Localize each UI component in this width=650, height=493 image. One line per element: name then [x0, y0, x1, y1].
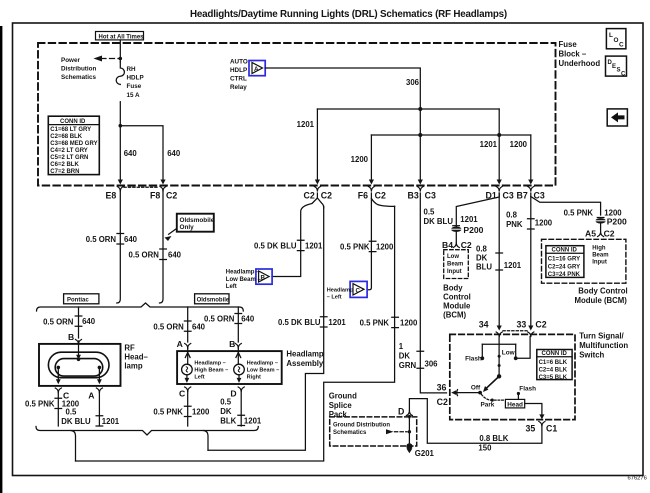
svg-text:C2=68 BLK: C2=68 BLK	[50, 134, 83, 140]
wire down to B7 exit	[530, 135, 532, 181]
svg-text:lamp: lamp	[124, 362, 142, 371]
svg-text:Fuse: Fuse	[559, 40, 578, 49]
svg-text:Assembly: Assembly	[286, 359, 324, 368]
svg-text:B3: B3	[408, 191, 419, 201]
svg-text:1: 1	[399, 342, 404, 351]
svg-text:Head–: Head–	[124, 353, 148, 362]
svg-text:1200: 1200	[535, 219, 553, 228]
svg-text:Fuse: Fuse	[127, 83, 142, 90]
Pontiac tag	[64, 294, 99, 304]
svg-text:1201: 1201	[297, 120, 315, 129]
svg-text:A: A	[88, 391, 94, 401]
switch wiper arm	[497, 374, 501, 378]
svg-text:Headlamp: Headlamp	[327, 288, 354, 294]
svg-text:Low: Low	[447, 254, 459, 260]
svg-text:C2=24 GRY: C2=24 GRY	[548, 264, 580, 270]
svg-text:640: 640	[241, 315, 255, 324]
D1/C3 split: branch to B4/C2 BCM low beam input	[456, 193, 499, 243]
svg-text:C2: C2	[535, 320, 546, 330]
svg-text:C: C	[621, 71, 626, 77]
svg-text:C2: C2	[321, 191, 332, 201]
brace exit hook left	[71, 431, 76, 462]
relay U1: AUTO HDLP CTRL Relay pointer icon A	[249, 61, 265, 76]
svg-text:Left: Left	[194, 375, 204, 381]
svg-text:C3=24 PNK: C3=24 PNK	[548, 272, 581, 278]
C2/C2 wire split below connector	[272, 193, 317, 277]
svg-text:Module (BCM): Module (BCM)	[575, 296, 628, 305]
svg-text:Headlamp –: Headlamp –	[226, 270, 260, 276]
svg-text:C: C	[356, 287, 361, 294]
svg-text:BLK: BLK	[220, 417, 236, 426]
svg-text:0.5 ORN: 0.5 ORN	[129, 251, 160, 260]
B7/C3 split: branch to A5/C2 BCM high beam input	[531, 193, 601, 215]
svg-text:C2: C2	[375, 191, 386, 201]
svg-text:A: A	[177, 339, 183, 349]
wire down to F6 exit	[370, 135, 372, 181]
svg-text:0.5 DK BLU: 0.5 DK BLU	[254, 242, 297, 251]
wire down to assembly A	[187, 307, 189, 342]
svg-text:Headlights/Daytime Running Lig: Headlights/Daytime Running Lights (DRL) …	[190, 9, 507, 20]
wire branch to F8	[120, 126, 163, 181]
svg-text:0.8: 0.8	[506, 211, 518, 220]
svg-text:1201: 1201	[504, 261, 522, 270]
svg-text:0.5 ORN: 0.5 ORN	[153, 323, 184, 332]
wire down to C2 exit	[316, 109, 318, 181]
svg-text:Beam: Beam	[447, 261, 463, 267]
svg-text:Input: Input	[592, 260, 607, 266]
svg-text:1201: 1201	[480, 140, 498, 149]
svg-text:35: 35	[526, 424, 536, 434]
svg-text:0.5 ORN: 0.5 ORN	[43, 318, 74, 327]
svg-text:B: B	[261, 274, 266, 281]
CONN ID table (switch)	[537, 350, 572, 381]
pointer icon B: Headlamp Low Beam - Left	[256, 269, 272, 284]
svg-text:640: 640	[192, 323, 206, 332]
B7 main wire down to switch 33 (0.8 PNK 1200)	[530, 197, 532, 328]
svg-text:B: B	[68, 332, 74, 342]
svg-text:Block –: Block –	[559, 50, 587, 59]
svg-text:640: 640	[168, 251, 182, 260]
svg-text:Park: Park	[481, 402, 495, 409]
svg-text:33: 33	[517, 320, 527, 330]
Low Beam Input dashed box	[444, 250, 469, 279]
park contact + dotted detent path	[491, 399, 494, 402]
wire down to assembly B	[237, 307, 239, 342]
svg-text:Body: Body	[443, 284, 463, 293]
head contact box	[505, 399, 524, 408]
svg-text:306: 306	[406, 78, 420, 87]
distribution bracket (orange feed)	[37, 303, 244, 311]
wire down to D1 exit	[498, 109, 500, 181]
high beam left bulb	[182, 352, 229, 383]
svg-text:34: 34	[479, 320, 489, 330]
svg-text:Splice: Splice	[329, 401, 353, 410]
fuse RH HDLP 15A	[116, 62, 124, 84]
svg-text:RF: RF	[124, 344, 135, 353]
wire down to RF headlamp B	[78, 307, 80, 338]
svg-text:DK BLU: DK BLU	[61, 417, 91, 426]
F6/C2 wire split below connector	[367, 193, 371, 290]
svg-text:1201: 1201	[460, 215, 478, 224]
svg-text:Headlamp –: Headlamp –	[247, 361, 278, 367]
P200 pass-through (right)	[595, 218, 605, 223]
svg-text:D: D	[398, 407, 404, 417]
svg-text:C3=5 BLK: C3=5 BLK	[539, 375, 568, 381]
svg-text:HDLP: HDLP	[127, 75, 144, 82]
svg-text:0.5 PNK: 0.5 PNK	[340, 243, 370, 252]
svg-text:0.5 PNK: 0.5 PNK	[564, 209, 594, 218]
svg-text:15 A: 15 A	[127, 92, 141, 99]
PNK return path: F6 branch to left brace	[76, 206, 395, 461]
svg-text:B7: B7	[517, 191, 528, 201]
connector fork on B wire	[76, 340, 82, 345]
svg-text:– Left: – Left	[327, 294, 342, 300]
svg-text:1200: 1200	[400, 319, 418, 328]
low contact centre	[498, 344, 500, 376]
svg-text:0.5: 0.5	[424, 208, 436, 217]
svg-text:640: 640	[167, 149, 181, 158]
svg-text:0.5 DK BLU: 0.5 DK BLU	[278, 318, 321, 327]
svg-text:C1: C1	[546, 424, 557, 434]
svg-text:O: O	[614, 37, 619, 44]
svg-text:Oldsmobile: Oldsmobile	[180, 217, 215, 224]
svg-text:High: High	[592, 246, 606, 252]
svg-text:1201: 1201	[328, 318, 346, 327]
wire E8 down to pontiac/olds bracket	[117, 191, 121, 303]
svg-text:640: 640	[124, 149, 138, 158]
DK BLU return path: C2 branch to right brace	[208, 206, 324, 450]
svg-text:A5: A5	[585, 229, 596, 239]
connector forks below fuse block	[117, 187, 123, 192]
svg-text:1201: 1201	[102, 417, 120, 426]
CONN ID table (BCM right)	[546, 246, 584, 278]
svg-text:Flash: Flash	[519, 386, 536, 393]
svg-text:Schematics: Schematics	[333, 430, 367, 436]
svg-text:C2=4 BLK: C2=4 BLK	[539, 367, 568, 373]
svg-text:Body Control: Body Control	[578, 287, 627, 296]
wire from off contact to 36/C2 exit	[457, 392, 481, 394]
svg-text:C2: C2	[604, 229, 615, 239]
switch: 34 pole down to crossbar	[498, 337, 500, 345]
svg-text:DK: DK	[399, 352, 411, 361]
svg-text:1200: 1200	[351, 155, 369, 164]
svg-text:Multifunction: Multifunction	[579, 341, 628, 350]
svg-text:Module: Module	[443, 302, 471, 311]
svg-text:CTRL: CTRL	[230, 76, 247, 83]
svg-text:0.5: 0.5	[220, 398, 232, 407]
arrows into E8 / F8	[118, 180, 123, 185]
off contact	[478, 391, 482, 395]
pointer icon C: Headlamp - Left	[350, 281, 367, 297]
distribution bus 2 (y=135): F6 to B7	[371, 134, 530, 136]
svg-text:Ground Distribution: Ground Distribution	[333, 422, 390, 428]
svg-text:CONN ID: CONN ID	[542, 351, 568, 357]
G201 ground	[406, 443, 412, 449]
svg-text:676276: 676276	[628, 476, 647, 482]
P200 pass-through (left)	[451, 227, 461, 232]
svg-text:Low Beam –: Low Beam –	[247, 368, 280, 374]
svg-text:1200: 1200	[192, 408, 210, 417]
merge brace under lamp wires	[36, 427, 258, 436]
svg-text:Only: Only	[180, 224, 195, 231]
svg-text:Control: Control	[443, 293, 471, 302]
svg-text:DK BLU: DK BLU	[424, 217, 454, 226]
svg-text:1201: 1201	[305, 242, 323, 251]
svg-text:BLU: BLU	[476, 263, 492, 272]
dashed pointer to ground wire	[395, 431, 408, 433]
svg-text:1201: 1201	[244, 417, 262, 426]
right contact fed from 33	[516, 337, 530, 359]
ground wire 0.8 BLK 150 from 35/C1	[409, 399, 542, 444]
power distribution schematics dashed arrow	[101, 58, 119, 60]
svg-text:Right: Right	[247, 375, 261, 381]
BCM (right) dashed box	[542, 239, 626, 283]
B3/C3 wire down: 1 DK GRN 306 to switch	[420, 193, 446, 393]
lamp B feed arrow	[78, 344, 80, 355]
svg-text:GRN: GRN	[399, 361, 417, 370]
wire F8 down to bracket	[160, 191, 164, 303]
DESC icon box	[606, 56, 627, 77]
flash contact left	[481, 344, 483, 358]
svg-text:Head: Head	[507, 401, 523, 408]
svg-text:C: C	[179, 389, 185, 399]
svg-text:C3: C3	[425, 191, 436, 201]
svg-text:S: S	[617, 68, 621, 74]
dotted connector tie E8-F8	[124, 186, 159, 188]
svg-text:C2: C2	[304, 191, 315, 201]
svg-text:0.8: 0.8	[476, 245, 488, 254]
fuse block underhood dashed box	[38, 43, 556, 186]
svg-text:CONN ID: CONN ID	[552, 248, 578, 254]
svg-text:L: L	[609, 32, 613, 39]
svg-text:P200: P200	[607, 216, 627, 226]
svg-text:C6=2 BLK: C6=2 BLK	[50, 162, 79, 168]
exit arrows at fuse block bottom	[315, 180, 320, 185]
svg-text:CONN ID: CONN ID	[60, 119, 86, 125]
svg-text:1200: 1200	[510, 140, 528, 149]
svg-text:36: 36	[437, 383, 447, 393]
svg-text:DK: DK	[220, 407, 232, 416]
svg-text:Pontiac: Pontiac	[67, 298, 89, 304]
svg-text:C1=16 GRY: C1=16 GRY	[548, 257, 580, 263]
CONN ID table (fuse block)	[48, 116, 99, 175]
svg-text:C1=6 BLK: C1=6 BLK	[539, 360, 568, 366]
svg-text:D: D	[230, 389, 236, 399]
svg-text:640: 640	[82, 317, 96, 326]
svg-text:RH: RH	[127, 66, 137, 73]
svg-text:Ground: Ground	[329, 392, 357, 401]
dotted connector tie 34-33	[503, 330, 527, 332]
switch feed arrows 34 / 33	[497, 326, 502, 331]
svg-text:0.5: 0.5	[66, 408, 78, 417]
svg-text:0.5 ORN: 0.5 ORN	[86, 235, 117, 244]
svg-text:Turn Signal/: Turn Signal/	[579, 332, 624, 341]
svg-text:F6: F6	[358, 191, 368, 201]
svg-text:0.5 PNK: 0.5 PNK	[153, 408, 183, 417]
svg-text:Hot at All Times: Hot at All Times	[99, 34, 145, 40]
svg-text:Headlamp –: Headlamp –	[194, 361, 225, 367]
distribution bus 1 (y=109): C2 to D1	[317, 108, 499, 110]
Oldsmobile Only callout box	[165, 214, 215, 241]
svg-text:DK: DK	[476, 254, 488, 263]
svg-text:C3=68 MED GRY: C3=68 MED GRY	[50, 141, 97, 147]
Oldsmobile tag	[195, 294, 230, 304]
svg-text:0.5 PNK: 0.5 PNK	[360, 319, 390, 328]
ground distribution schematics dashed box	[330, 417, 417, 446]
svg-text:HDLP: HDLP	[230, 67, 247, 74]
svg-text:Distribution: Distribution	[61, 66, 96, 73]
Hot at All Times label box	[96, 32, 145, 41]
RF headlamp reflector outline	[48, 352, 109, 378]
svg-text:Switch: Switch	[579, 351, 604, 360]
svg-text:Power: Power	[61, 57, 80, 64]
svg-text:Low: Low	[502, 350, 515, 357]
svg-text:C2: C2	[166, 191, 177, 201]
LOC icon box	[606, 29, 626, 49]
svg-text:G201: G201	[415, 449, 435, 458]
ground splice pack wire down to G201	[408, 416, 410, 447]
wire: relay output to B3	[265, 68, 420, 181]
svg-text:640: 640	[124, 235, 138, 244]
svg-text:0.5 PNK: 0.5 PNK	[25, 400, 55, 409]
svg-text:1200: 1200	[376, 243, 394, 252]
svg-text:0.8 BLK: 0.8 BLK	[479, 434, 508, 443]
wire: fuse output down to E8, junction at y=125.7	[119, 102, 121, 181]
svg-text:Oldsmobile: Oldsmobile	[197, 298, 230, 304]
svg-text:Underhood: Underhood	[559, 59, 601, 68]
svg-text:Schematics: Schematics	[61, 74, 96, 81]
svg-text:Off: Off	[471, 385, 481, 392]
left scan edge bar	[0, 26, 2, 493]
svg-text:PNK: PNK	[506, 220, 523, 229]
svg-text:B4: B4	[442, 240, 453, 250]
RF Headlamp box	[39, 344, 121, 386]
svg-text:P200: P200	[463, 225, 483, 235]
svg-text:E: E	[612, 64, 616, 70]
wire from head box to 35/C1 exit	[525, 404, 542, 416]
svg-text:C5=2 LT GRN: C5=2 LT GRN	[50, 155, 88, 161]
svg-text:Flash: Flash	[465, 356, 482, 363]
back-arrow icon box	[607, 109, 627, 126]
svg-text:C3: C3	[503, 191, 514, 201]
Headlamp Assembly box	[177, 351, 282, 384]
svg-text:C1=68 LT GRY: C1=68 LT GRY	[50, 127, 91, 133]
svg-text:E8: E8	[106, 191, 117, 201]
svg-text:High Beam –: High Beam –	[194, 368, 228, 374]
svg-text:150: 150	[478, 444, 492, 453]
low beam right bulb	[234, 352, 280, 383]
svg-text:Headlamp: Headlamp	[286, 350, 324, 359]
svg-text:Input: Input	[447, 269, 462, 275]
svg-text:B: B	[229, 339, 235, 349]
svg-text:C: C	[619, 42, 624, 49]
brace exit hook right	[204, 431, 209, 451]
connector forks at switch box top	[496, 332, 502, 337]
turn signal / multifunction switch dashed box	[450, 334, 575, 419]
svg-text:Pack: Pack	[329, 410, 348, 419]
svg-text:C4=2 LT GRY: C4=2 LT GRY	[50, 148, 88, 154]
svg-text:A: A	[254, 66, 259, 73]
power feed wire from Hot at All Times	[119, 40, 121, 62]
svg-text:Relay: Relay	[230, 84, 247, 91]
svg-text:306: 306	[425, 360, 439, 369]
svg-text:C2: C2	[461, 240, 472, 250]
svg-text:(BCM): (BCM)	[443, 311, 466, 320]
svg-text:C7=2 BRN: C7=2 BRN	[50, 169, 79, 175]
filament terminals	[57, 366, 61, 370]
svg-text:0.5 ORN: 0.5 ORN	[204, 315, 235, 324]
svg-text:AUTO: AUTO	[230, 59, 248, 66]
svg-text:Left: Left	[226, 284, 237, 290]
svg-text:Low Beam –: Low Beam –	[226, 277, 262, 283]
svg-text:C2: C2	[437, 397, 448, 407]
D1 main wire down to switch 34 (0.8 DK BLU 1201)	[498, 193, 500, 327]
svg-text:F8: F8	[150, 191, 160, 201]
svg-text:Beam: Beam	[592, 253, 608, 259]
